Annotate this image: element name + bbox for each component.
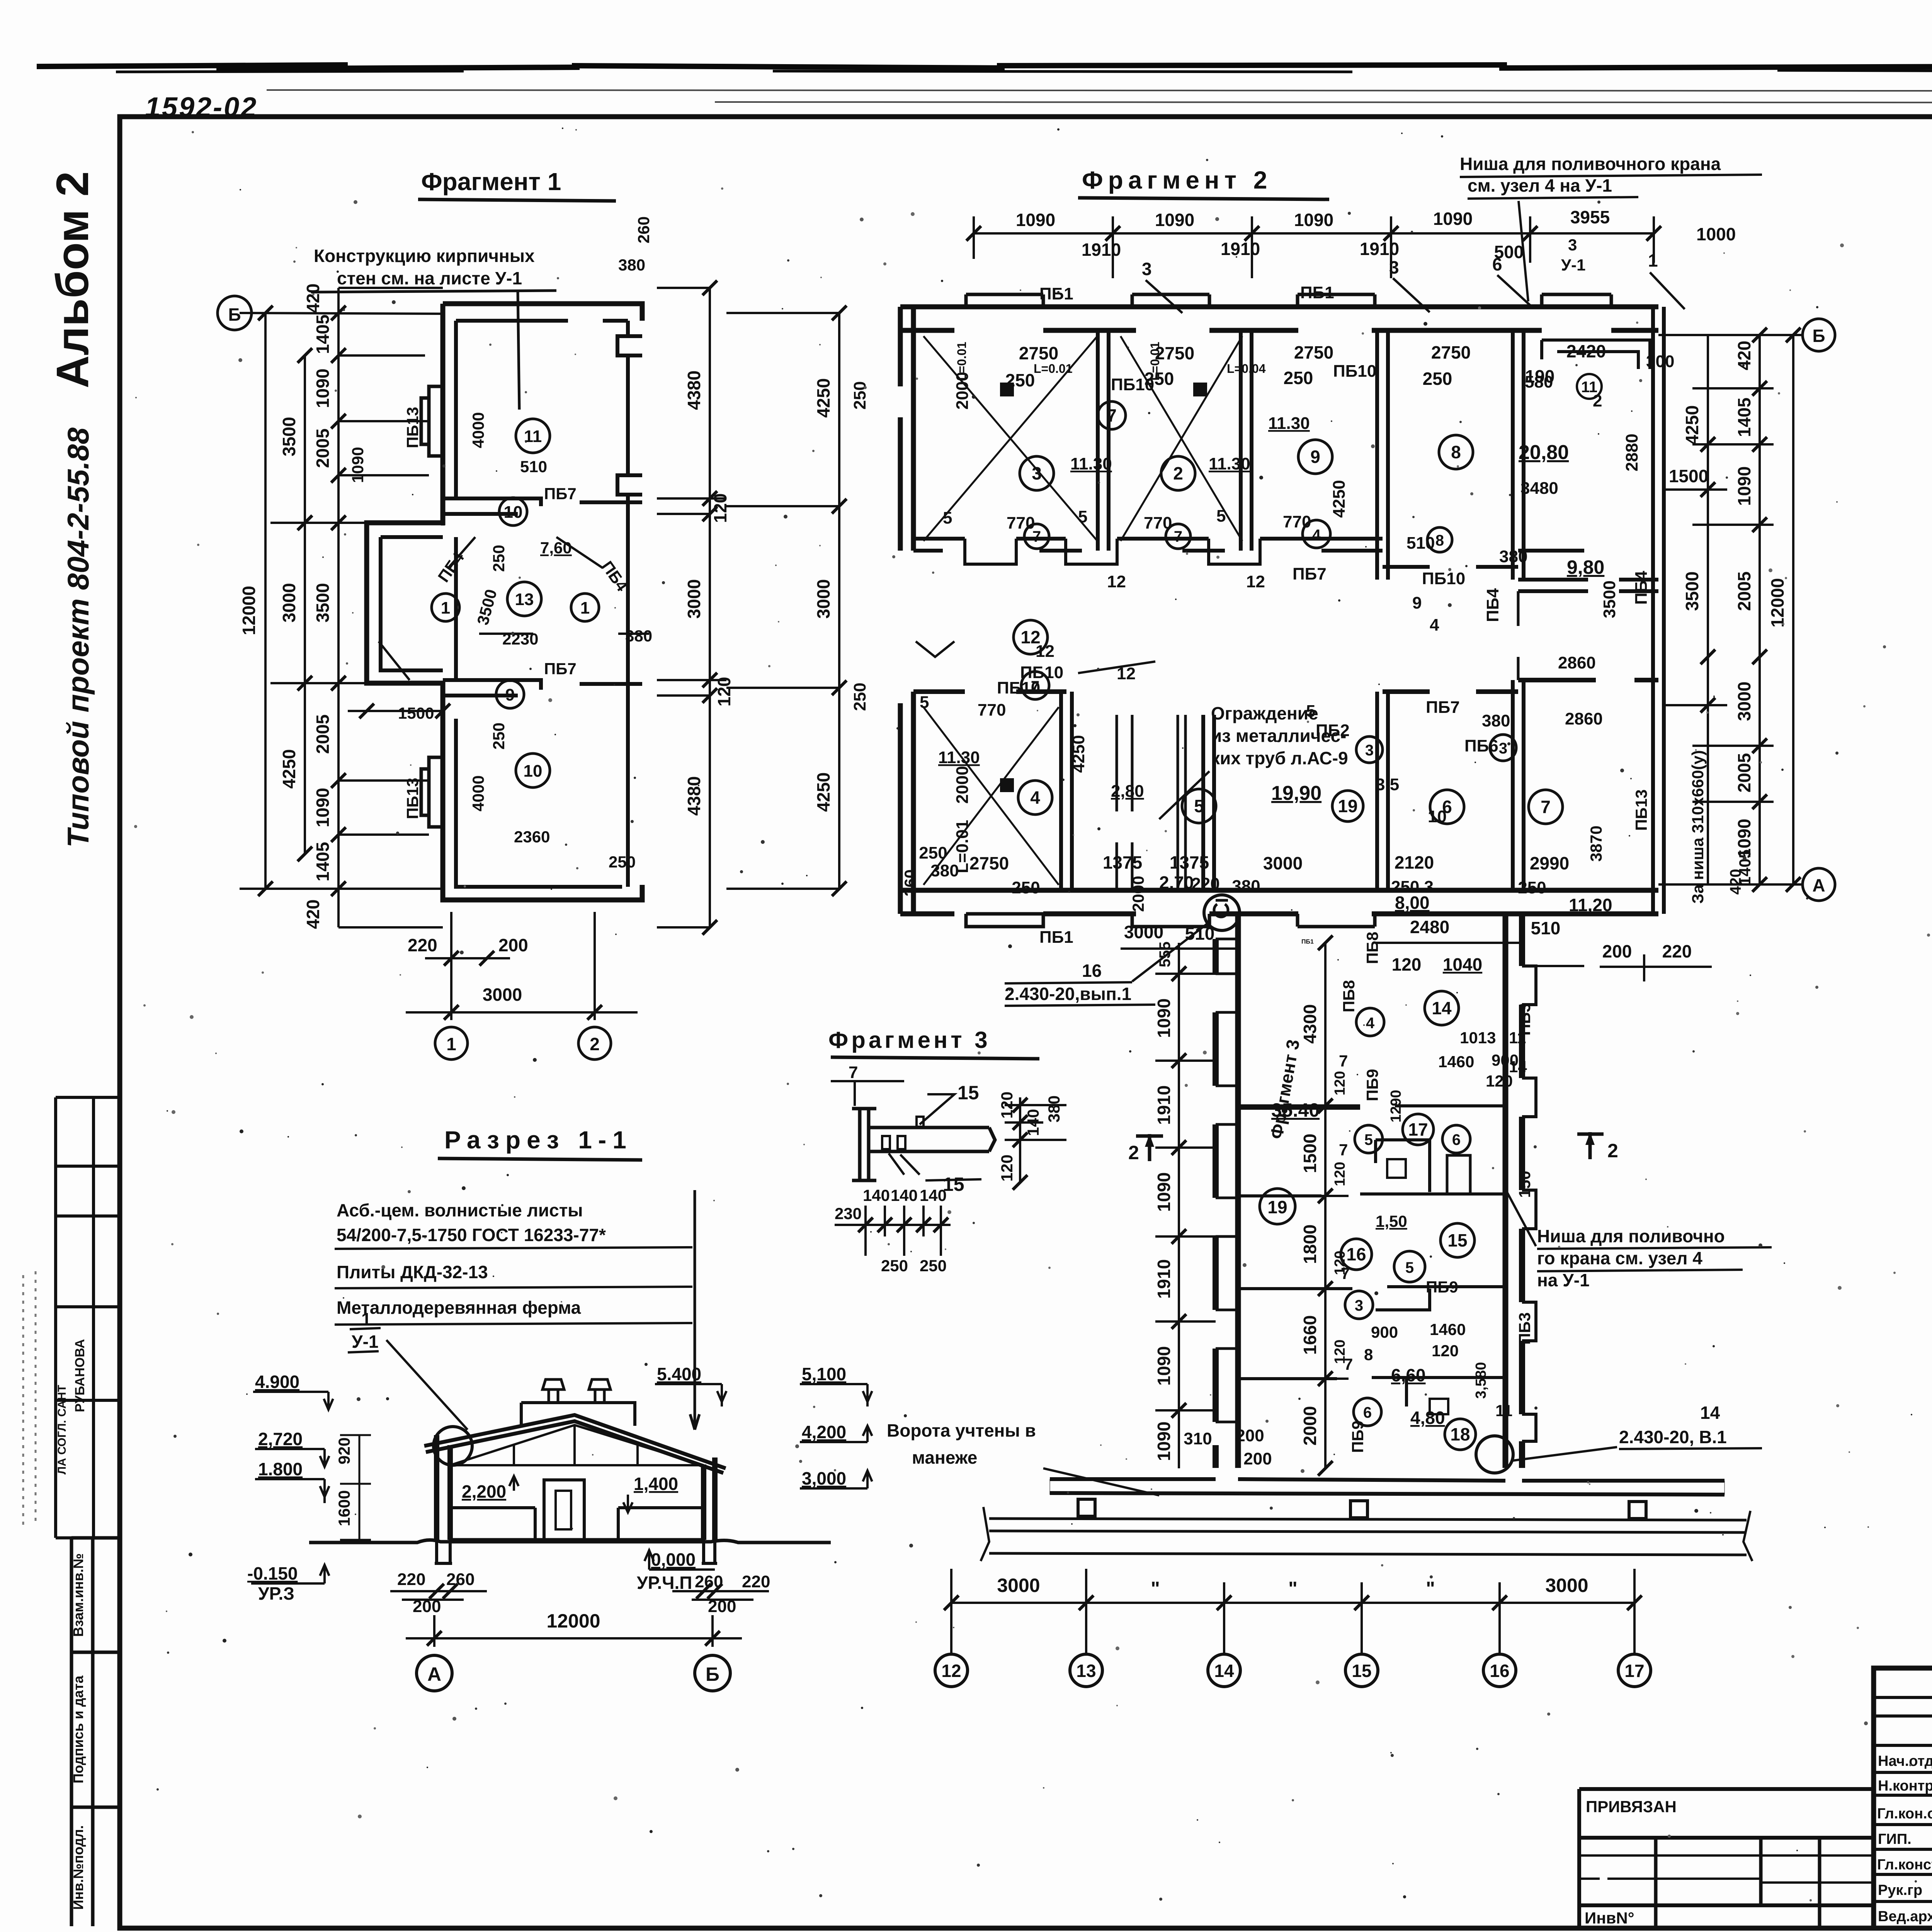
svg-text:Типовой проект 804-2-55.88: Типовой проект 804-2-55.88 xyxy=(61,427,95,848)
svg-text:ПБ1: ПБ1 xyxy=(1300,283,1334,302)
svg-text:L=0.01: L=0.01 xyxy=(1148,342,1162,381)
faint rule under header xyxy=(267,90,1932,103)
svg-text:770: 770 xyxy=(978,701,1006,719)
svg-text:250: 250 xyxy=(919,844,947,862)
svg-text:120: 120 xyxy=(1332,1340,1348,1364)
svg-text:3870: 3870 xyxy=(1587,826,1605,862)
svg-text:13: 13 xyxy=(1076,1661,1096,1681)
svg-text:16: 16 xyxy=(1490,1661,1509,1681)
svg-text:2005: 2005 xyxy=(1734,753,1754,793)
svg-text:4250: 4250 xyxy=(279,749,299,789)
svg-text:1090: 1090 xyxy=(1433,209,1473,229)
svg-text:250: 250 xyxy=(1005,370,1035,390)
svg-text:10: 10 xyxy=(504,503,523,522)
svg-text:7: 7 xyxy=(1339,1141,1348,1159)
fragment 2 right side dims xyxy=(1658,335,1804,884)
svg-text:1090: 1090 xyxy=(1154,998,1174,1038)
svg-text:6: 6 xyxy=(1492,254,1502,274)
room bottoms upper xyxy=(913,539,1383,551)
internal partition upper xyxy=(443,498,642,526)
corridor walls xyxy=(1216,914,1536,1468)
svg-text:L=0.01: L=0.01 xyxy=(955,342,969,381)
svg-text:4250: 4250 xyxy=(1330,480,1349,518)
svg-text:4: 4 xyxy=(1430,616,1439,634)
svg-text:1: 1 xyxy=(1648,250,1658,270)
svg-text:300: 300 xyxy=(1646,352,1674,371)
svg-text:4000: 4000 xyxy=(469,776,487,811)
svg-text:200: 200 xyxy=(498,935,528,955)
svg-text:4000: 4000 xyxy=(469,412,487,448)
internal partitions xyxy=(1238,1106,1505,1108)
svg-text:120: 120 xyxy=(1332,1071,1348,1095)
svg-text:3000: 3000 xyxy=(1124,922,1163,942)
svg-text:4: 4 xyxy=(1030,787,1040,808)
svg-text:2860: 2860 xyxy=(1565,709,1603,728)
svg-text:го крана см. узел 4: го крана см. узел 4 xyxy=(1537,1248,1702,1268)
svg-text:380: 380 xyxy=(1232,877,1260,896)
lower band walls xyxy=(900,591,1658,927)
svg-text:3500: 3500 xyxy=(313,583,333,622)
svg-text:1375: 1375 xyxy=(1170,852,1209,872)
svg-text:310: 310 xyxy=(1184,1429,1212,1448)
svg-text:2000: 2000 xyxy=(1300,1406,1320,1446)
svg-text:2000: 2000 xyxy=(1129,876,1147,912)
svg-text:2005: 2005 xyxy=(313,429,333,468)
svg-text:Взам.инв.№: Взам.инв.№ xyxy=(70,1553,86,1637)
svg-text:ПБ9: ПБ9 xyxy=(1363,1069,1381,1101)
svg-text:3480: 3480 xyxy=(1520,479,1558,498)
svg-text:120: 120 xyxy=(1432,1342,1459,1360)
svg-text:5: 5 xyxy=(1364,1131,1373,1148)
svg-text:4380: 4380 xyxy=(684,776,704,816)
svg-text:ПБ4: ПБ4 xyxy=(1632,571,1651,605)
fragment 1 bottom dims xyxy=(406,912,638,1020)
svg-text:": " xyxy=(1426,1578,1435,1599)
svg-text:5: 5 xyxy=(1194,796,1204,816)
svg-text:L=0.04: L=0.04 xyxy=(1227,362,1266,376)
svg-text:220: 220 xyxy=(408,935,437,955)
svg-text:": " xyxy=(1151,1578,1160,1599)
svg-text:220: 220 xyxy=(1662,941,1692,961)
upper rooms dims xyxy=(1005,341,1606,390)
svg-text:250: 250 xyxy=(609,853,636,871)
svg-text:ких труб л.АС-9: ких труб л.АС-9 xyxy=(1211,748,1348,768)
svg-text:ПБ10: ПБ10 xyxy=(1422,569,1465,588)
svg-text:140: 140 xyxy=(1024,1109,1042,1136)
walls xyxy=(437,1435,715,1540)
fragment 1 dimension chains right xyxy=(657,288,839,927)
svg-text:Рук.гр: Рук.гр xyxy=(1878,1882,1922,1898)
svg-text:8,00: 8,00 xyxy=(1395,893,1430,913)
svg-text:Ворота учтены в: Ворота учтены в xyxy=(887,1420,1036,1440)
bottom axis dims xyxy=(951,1569,1634,1654)
svg-text:250: 250 xyxy=(850,381,869,410)
partitions upper xyxy=(1098,307,1664,914)
axis circle Б left xyxy=(218,296,252,330)
svg-text:Асб.-цем. волнистые листы: Асб.-цем. волнистые листы xyxy=(337,1200,583,1220)
svg-text:стен см. на листе У-1: стен см. на листе У-1 xyxy=(337,268,522,288)
corridor top dims xyxy=(1124,917,1692,975)
detail circle xyxy=(434,1427,472,1465)
svg-text:1500: 1500 xyxy=(1300,1134,1320,1173)
svg-text:L=0.01: L=0.01 xyxy=(1034,362,1073,376)
ground xyxy=(309,1540,831,1543)
svg-text:Фрагмент 3: Фрагмент 3 xyxy=(828,1027,991,1053)
left chain of corridor xyxy=(1155,943,1216,1468)
title block xyxy=(1874,1668,1932,1928)
svg-text:8: 8 xyxy=(1451,442,1461,462)
svg-text:3,000: 3,000 xyxy=(802,1468,846,1488)
svg-text:2,70: 2,70 xyxy=(1159,872,1194,893)
window/door niches left xyxy=(421,386,443,456)
lower rooms labels xyxy=(920,642,1603,873)
svg-text:11.30: 11.30 xyxy=(1070,454,1112,473)
svg-text:12: 12 xyxy=(1246,572,1265,591)
svg-text:3,580: 3,580 xyxy=(1473,1362,1489,1399)
fragment 3 right dims xyxy=(1005,1097,1066,1182)
svg-text:ПБ1: ПБ1 xyxy=(1039,928,1073,947)
svg-text:1600: 1600 xyxy=(335,1490,353,1526)
svg-text:см. узел 4 на У-1: см. узел 4 на У-1 xyxy=(1468,175,1612,196)
svg-text:4,80: 4,80 xyxy=(1410,1408,1445,1428)
svg-text:2480: 2480 xyxy=(1410,917,1449,937)
svg-text:150: 150 xyxy=(1515,1171,1534,1198)
svg-text:250: 250 xyxy=(1423,369,1452,389)
svg-text:Гл.кон.отд: Гл.кон.отд xyxy=(1877,1806,1932,1822)
svg-text:7: 7 xyxy=(1339,1052,1348,1070)
svg-text:3: 3 xyxy=(1142,259,1152,279)
base dims xyxy=(397,1570,770,1616)
svg-text:1500: 1500 xyxy=(1669,466,1708,486)
svg-text:ИнвN°: ИнвN° xyxy=(1585,1909,1634,1927)
svg-text:2005: 2005 xyxy=(313,714,333,754)
svg-text:5: 5 xyxy=(920,693,929,712)
svg-text:250: 250 xyxy=(490,723,508,750)
fragment 1 dimension chains left xyxy=(240,288,443,927)
lower rooms circles xyxy=(1018,672,1563,824)
room 8 inner niche xyxy=(1542,340,1650,369)
upper room circles xyxy=(1020,401,1473,552)
svg-text:15: 15 xyxy=(1352,1661,1371,1681)
corridor small labels xyxy=(1332,932,1534,1453)
svg-text:манеже: манеже xyxy=(912,1447,977,1468)
svg-text:1: 1 xyxy=(441,599,450,617)
svg-text:14: 14 xyxy=(1700,1403,1720,1423)
svg-text:770: 770 xyxy=(1007,514,1035,532)
svg-text:3000: 3000 xyxy=(1545,1575,1588,1596)
svg-text:4: 4 xyxy=(1312,527,1321,544)
svg-text:1: 1 xyxy=(580,599,590,617)
svg-text:1090: 1090 xyxy=(1734,466,1754,506)
svg-text:1090: 1090 xyxy=(1154,1172,1174,1212)
small arrows / L=0.01 marks xyxy=(955,342,1266,381)
svg-text:ПБ7: ПБ7 xyxy=(1293,565,1327,583)
svg-text:У-1: У-1 xyxy=(1561,256,1585,274)
svg-text:2: 2 xyxy=(590,1034,600,1054)
svg-text:140: 140 xyxy=(863,1186,890,1204)
svg-text:1290: 1290 xyxy=(1388,1090,1404,1122)
svg-text:7: 7 xyxy=(1541,797,1551,817)
svg-text:4,200: 4,200 xyxy=(802,1422,846,1442)
svg-text:6: 6 xyxy=(1452,1131,1461,1148)
svg-text:9: 9 xyxy=(1412,594,1422,612)
svg-text:260: 260 xyxy=(446,1570,474,1589)
svg-text:250: 250 xyxy=(1518,878,1546,897)
svg-text:1090: 1090 xyxy=(1155,210,1194,230)
svg-text:Б: Б xyxy=(706,1663,719,1685)
svg-text:20,80: 20,80 xyxy=(1519,441,1569,464)
svg-text:1090: 1090 xyxy=(1294,210,1333,230)
svg-text:510: 510 xyxy=(1531,918,1561,938)
svg-text:5: 5 xyxy=(1405,1259,1414,1276)
svg-text:1500: 1500 xyxy=(398,704,434,722)
svg-text:ПБ2: ПБ2 xyxy=(1316,721,1350,740)
svg-text:200: 200 xyxy=(1602,941,1632,961)
roof xyxy=(424,1415,726,1473)
svg-text:220: 220 xyxy=(397,1570,425,1589)
privyazan block xyxy=(1579,1789,1874,1928)
svg-text:54/200-7,5-1750 ГОСТ 16233-77*: 54/200-7,5-1750 ГОСТ 16233-77* xyxy=(337,1225,606,1245)
svg-text:1090: 1090 xyxy=(313,369,333,408)
svg-text:250: 250 xyxy=(1012,878,1040,897)
manege wall band xyxy=(981,1479,1752,1561)
svg-text:2: 2 xyxy=(1607,1140,1618,1162)
svg-text:120: 120 xyxy=(714,677,734,707)
svg-text:770: 770 xyxy=(1283,512,1311,531)
svg-text:Вед.арх: Вед.арх xyxy=(1878,1908,1932,1925)
middle area xyxy=(1014,620,1048,654)
svg-text:ПБ7: ПБ7 xyxy=(544,660,577,678)
svg-text:За ниша 310х660(у): За ниша 310х660(у) xyxy=(1689,750,1707,903)
svg-text:ПБ1: ПБ1 xyxy=(1039,284,1073,303)
top scan band xyxy=(37,65,1932,72)
svg-text:16: 16 xyxy=(1346,1244,1366,1264)
svg-text:": " xyxy=(1288,1578,1298,1599)
svg-text:7: 7 xyxy=(1174,528,1182,545)
svg-text:ПБ3: ПБ3 xyxy=(1515,1003,1534,1036)
svg-text:250: 250 xyxy=(490,545,508,572)
svg-text:8: 8 xyxy=(1435,532,1444,549)
svg-text:15: 15 xyxy=(957,1082,979,1104)
svg-text:420: 420 xyxy=(303,284,323,313)
fragment 1 plan walls xyxy=(367,304,642,900)
svg-text:380: 380 xyxy=(625,627,652,645)
svg-text:2360: 2360 xyxy=(514,828,550,846)
svg-text:3500: 3500 xyxy=(279,417,299,456)
svg-text:ПБ6: ПБ6 xyxy=(1464,736,1498,755)
internal partition lower xyxy=(443,680,642,696)
interior xyxy=(450,1538,704,1542)
svg-text:1,50: 1,50 xyxy=(1376,1212,1407,1230)
svg-text:ГИП.: ГИП. xyxy=(1878,1831,1912,1847)
svg-text:1040: 1040 xyxy=(1443,954,1482,975)
svg-text:1013: 1013 xyxy=(1460,1029,1496,1047)
svg-text:2880: 2880 xyxy=(1622,434,1641,471)
svg-text:Б: Б xyxy=(1812,326,1825,346)
elevation marks left xyxy=(247,1372,303,1604)
svg-text:ПБ13: ПБ13 xyxy=(403,778,422,819)
svg-text:120: 120 xyxy=(1332,1251,1348,1275)
svg-text:1375: 1375 xyxy=(1103,852,1142,872)
svg-text:-0.150: -0.150 xyxy=(247,1563,298,1583)
svg-text:1090: 1090 xyxy=(1154,1346,1174,1386)
section marks 2 xyxy=(1136,1132,1604,1161)
svg-text:11: 11 xyxy=(524,427,542,446)
fragment 3 drawing xyxy=(831,1081,995,1180)
svg-text:120: 120 xyxy=(998,1092,1016,1119)
svg-text:2750: 2750 xyxy=(969,853,1009,873)
svg-text:ПБ9: ПБ9 xyxy=(1349,1420,1367,1453)
svg-text:ПБ3: ПБ3 xyxy=(1515,1312,1534,1345)
svg-text:1090: 1090 xyxy=(1016,210,1055,230)
svg-text:1910: 1910 xyxy=(1154,1085,1174,1125)
svg-text:2860: 2860 xyxy=(1558,653,1596,672)
svg-text:А: А xyxy=(1812,875,1825,895)
svg-text:11.30: 11.30 xyxy=(938,748,980,767)
svg-text:3955: 3955 xyxy=(1570,207,1610,227)
svg-text:260: 260 xyxy=(901,869,919,896)
svg-text:11.30: 11.30 xyxy=(1209,454,1250,473)
svg-text:19: 19 xyxy=(1338,796,1357,816)
svg-text:2,200: 2,200 xyxy=(462,1481,506,1502)
svg-text:ЛА СОГЛ. САНТ: ЛА СОГЛ. САНТ xyxy=(56,1385,68,1475)
svg-text:1460: 1460 xyxy=(1438,1053,1474,1071)
svg-text:ПРИВЯЗАН: ПРИВЯЗАН xyxy=(1586,1798,1677,1816)
svg-text:260: 260 xyxy=(634,216,653,243)
lower dims row xyxy=(919,844,1569,897)
svg-text:Гл.констр: Гл.констр xyxy=(1877,1857,1932,1873)
svg-text:УР.З: УР.З xyxy=(258,1583,294,1604)
svg-text:17: 17 xyxy=(1408,1119,1428,1139)
svg-text:1800: 1800 xyxy=(1300,1225,1320,1264)
fragment 2 top dimension chains xyxy=(974,216,1654,278)
svg-text:1090: 1090 xyxy=(349,447,367,483)
svg-text:2: 2 xyxy=(1173,463,1183,483)
svg-text:1000: 1000 xyxy=(1696,224,1736,244)
svg-text:1: 1 xyxy=(446,1034,456,1054)
svg-text:1405: 1405 xyxy=(1734,398,1754,437)
svg-text:3000: 3000 xyxy=(684,579,704,619)
svg-text:Н.контр: Н.контр xyxy=(1878,1778,1932,1794)
svg-text:1910: 1910 xyxy=(1154,1259,1174,1299)
svg-text:3500: 3500 xyxy=(1682,571,1702,611)
svg-text:1910: 1910 xyxy=(1082,240,1121,260)
svg-text:2: 2 xyxy=(1128,1142,1139,1163)
svg-text:Фрагмент 1: Фрагмент 1 xyxy=(421,168,561,196)
svg-text:11: 11 xyxy=(1495,1401,1512,1420)
svg-text:ПБ1: ПБ1 xyxy=(1301,939,1314,945)
svg-text:200: 200 xyxy=(1236,1426,1264,1445)
12000 dim xyxy=(406,1615,742,1647)
svg-text:420: 420 xyxy=(1727,869,1744,895)
svg-text:555: 555 xyxy=(1156,942,1173,968)
svg-text:5: 5 xyxy=(1306,702,1315,721)
svg-text:1592-02: 1592-02 xyxy=(145,92,258,123)
svg-text:3000: 3000 xyxy=(483,985,522,1005)
svg-text:7: 7 xyxy=(1107,405,1117,425)
svg-text:Ограждение: Ограждение xyxy=(1211,703,1318,723)
svg-text:12000: 12000 xyxy=(239,586,259,635)
svg-text:16: 16 xyxy=(1082,961,1102,981)
svg-text:Ниша для поливочно: Ниша для поливочно xyxy=(1537,1226,1725,1246)
svg-text:4: 4 xyxy=(1366,1015,1375,1032)
svg-text:3: 3 xyxy=(1389,257,1399,277)
svg-text:ПБ8: ПБ8 xyxy=(1363,932,1381,964)
svg-text:3500: 3500 xyxy=(1600,580,1619,618)
svg-text:ПБ13: ПБ13 xyxy=(1632,789,1650,831)
svg-text:Разрез 1-1: Разрез 1-1 xyxy=(444,1126,633,1154)
svg-text:10: 10 xyxy=(524,762,543,781)
svg-text:2.430-20,вып.1: 2.430-20,вып.1 xyxy=(1005,984,1131,1004)
svg-text:140: 140 xyxy=(920,1186,947,1204)
svg-text:4250: 4250 xyxy=(813,772,833,812)
svg-text:4380: 4380 xyxy=(684,371,704,410)
svg-text:4300: 4300 xyxy=(1300,1004,1320,1044)
svg-text:4250: 4250 xyxy=(813,378,833,418)
svg-text:ПБ10: ПБ10 xyxy=(997,679,1040,697)
svg-text:Металлодеревянная ферма: Металлодеревянная ферма xyxy=(337,1298,581,1318)
svg-text:3000: 3000 xyxy=(1734,682,1754,721)
svg-text:120: 120 xyxy=(710,493,730,523)
svg-text:13: 13 xyxy=(515,590,534,609)
svg-text:7,60: 7,60 xyxy=(540,539,572,557)
svg-text:250: 250 xyxy=(850,683,869,711)
svg-text:18: 18 xyxy=(1450,1424,1470,1444)
fragment 1 inner labels xyxy=(349,216,653,871)
inner chain xyxy=(1302,943,1360,1468)
svg-text:1090: 1090 xyxy=(1154,1422,1174,1461)
svg-text:ПБ9: ПБ9 xyxy=(1426,1278,1458,1296)
svg-text:12000: 12000 xyxy=(1767,578,1787,628)
svg-text:ПБ10: ПБ10 xyxy=(1333,362,1376,381)
truss xyxy=(450,1425,704,1465)
svg-text:5: 5 xyxy=(1216,507,1226,526)
svg-text:2.430-20, В.1: 2.430-20, В.1 xyxy=(1619,1427,1727,1447)
axis circles 12-17 xyxy=(935,1654,1651,1687)
svg-text:19,90: 19,90 xyxy=(1271,782,1321,804)
svg-text:14: 14 xyxy=(1214,1661,1234,1681)
svg-text:220: 220 xyxy=(1191,874,1219,893)
svg-text:1910: 1910 xyxy=(1360,239,1399,259)
svg-text:3: 3 xyxy=(1365,742,1374,759)
svg-text:8: 8 xyxy=(1364,1345,1373,1364)
svg-text:380: 380 xyxy=(618,256,645,274)
stall diagonals upper rooms xyxy=(923,336,1242,541)
svg-text:УР.Ч.П: УР.Ч.П xyxy=(637,1573,692,1593)
svg-text:1090: 1090 xyxy=(313,788,333,827)
fragment 1 title xyxy=(421,168,561,196)
svg-text:2990: 2990 xyxy=(1530,853,1569,873)
svg-text:4.900: 4.900 xyxy=(255,1372,299,1392)
svg-text:2000: 2000 xyxy=(953,766,972,804)
svg-text:120: 120 xyxy=(1332,1162,1348,1186)
svg-text:380: 380 xyxy=(930,861,959,880)
svg-text:Альбом 2: Альбом 2 xyxy=(47,171,98,388)
svg-text:4250: 4250 xyxy=(1682,405,1702,445)
svg-text:14: 14 xyxy=(1509,1058,1527,1076)
svg-text:Ниша для поливочного крана: Ниша для поливочного крана xyxy=(1460,154,1721,174)
svg-text:6: 6 xyxy=(1363,1404,1372,1421)
svg-text:2,720: 2,720 xyxy=(258,1429,303,1449)
svg-text:11: 11 xyxy=(1581,379,1597,396)
svg-text:У-1: У-1 xyxy=(352,1332,379,1352)
svg-text:1: 1 xyxy=(361,1309,371,1329)
svg-text:1.800: 1.800 xyxy=(258,1459,303,1479)
svg-text:3: 3 xyxy=(1499,740,1507,757)
fragment 1 room labels xyxy=(432,419,599,787)
svg-text:220: 220 xyxy=(742,1572,770,1591)
svg-text:3,5: 3,5 xyxy=(1376,775,1399,794)
